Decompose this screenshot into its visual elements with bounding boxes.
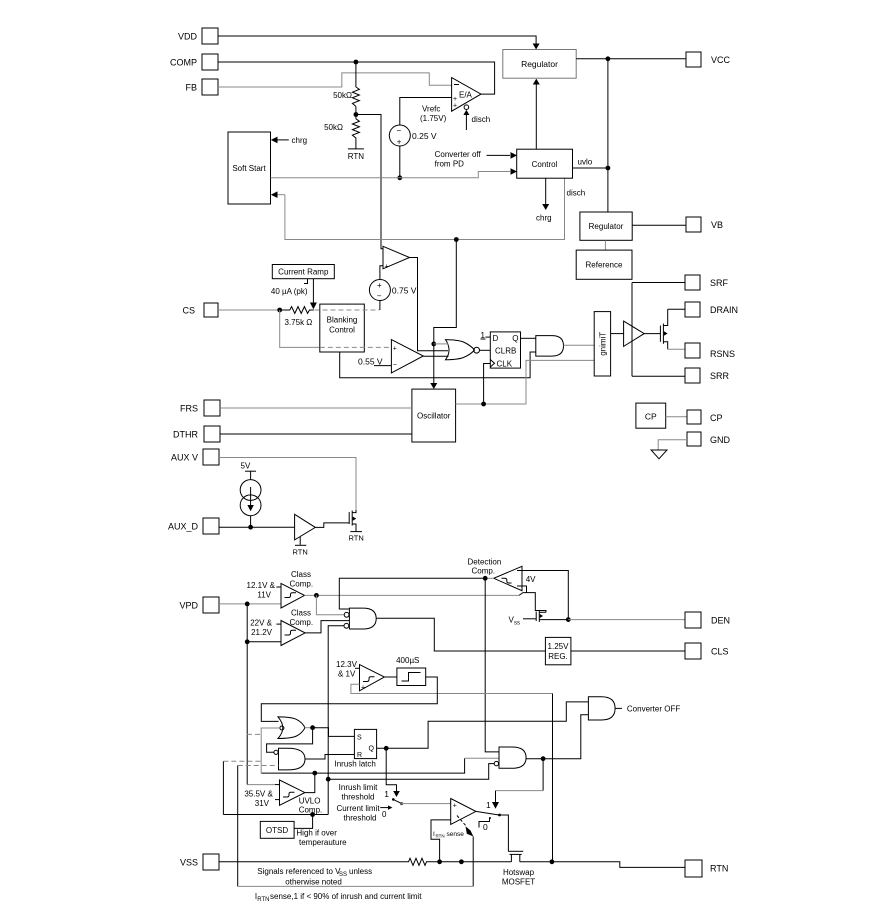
transistor SR MOSFET — [644, 309, 668, 349]
wire RSNS — [668, 348, 685, 350]
transistor Hotswap MOSFET — [502, 851, 535, 886]
wire 0.25V to E/A + input — [400, 98, 452, 126]
resistor RTN sense — [407, 858, 440, 865]
pin AUX_D — [168, 518, 219, 534]
wire AUX_D — [219, 526, 295, 528]
svg-text:D: D — [493, 334, 499, 343]
wire Regulator to VB — [632, 224, 686, 226]
svg-text:RTN: RTN — [349, 534, 364, 543]
wire oscillator to CLK — [484, 364, 491, 405]
wire DTHR — [220, 433, 412, 435]
svg-text:1: 1 — [486, 800, 491, 810]
wire AUX V — [219, 458, 356, 511]
wire NOR output to CLRB — [480, 349, 491, 351]
pin FB — [185, 79, 218, 95]
comparator IRTN sense — [451, 799, 476, 825]
wire mark comp to class gate — [328, 626, 344, 815]
wire detection down to inrush gate — [485, 578, 499, 752]
svg-text:unless: unless — [349, 867, 372, 876]
wire class1 output — [305, 593, 520, 598]
wire dashed stub near OR gate — [247, 733, 262, 735]
supply 5V — [241, 462, 257, 480]
wire mark comp to one-shot — [384, 676, 397, 678]
svg-text:+: + — [453, 803, 457, 810]
svg-text:FB: FB — [185, 83, 197, 93]
svg-text:VB: VB — [711, 220, 723, 230]
gate AND pwm — [536, 336, 564, 357]
svg-text:Current Ramp: Current Ramp — [278, 268, 329, 277]
resistor 50k lower — [324, 119, 359, 149]
dashed control arrow from IRTN comp — [457, 816, 473, 887]
svg-text:Class: Class — [291, 609, 311, 618]
wire buffer to aux fet gate — [315, 523, 349, 528]
source 0.25V — [389, 125, 437, 147]
wire latch Q to converter off gate — [377, 702, 589, 748]
wire DRAIN — [668, 308, 685, 310]
op-amp E/A error amplifier U1 — [452, 78, 481, 112]
wire divider tap to PWM comparator — [356, 115, 383, 249]
wire blanking bottom to AND lower input — [340, 352, 536, 378]
wire VCC rail down — [607, 59, 609, 212]
wire AND2 output to latch R — [305, 755, 354, 760]
pin CP — [687, 410, 723, 424]
wire vss sense vertical — [550, 694, 555, 865]
svg-text:sense,1 if < 90% of inrush and: sense,1 if < 90% of inrush and current l… — [270, 892, 422, 901]
wire line2 OTSD net — [326, 764, 494, 782]
svg-text:AUX V: AUX V — [171, 453, 198, 463]
pin COMP — [170, 54, 218, 70]
svg-text:& 1V: & 1V — [338, 670, 356, 679]
wire UVLO output — [305, 771, 317, 793]
svg-text:0: 0 — [382, 810, 387, 819]
resistor 50k upper — [333, 62, 359, 106]
pin CS — [182, 303, 218, 317]
wire DEN — [568, 619, 685, 621]
wire inhibit line1 — [261, 758, 464, 773]
svg-text:R: R — [357, 752, 362, 759]
wire soft-start output to Control — [271, 168, 518, 178]
svg-text:Detection: Detection — [468, 558, 502, 567]
wire FB to E/A inverting input — [218, 73, 452, 87]
svg-text:GND: GND — [710, 435, 731, 445]
svg-text:50kΩ: 50kΩ — [324, 123, 343, 132]
svg-text:VPD: VPD — [179, 601, 198, 611]
chrg arrow into Soft Start — [271, 136, 307, 145]
wire one-shot output to OR gate — [261, 677, 437, 721]
wire class line to Vss fet — [519, 593, 546, 613]
comparator Class 1 — [247, 570, 314, 608]
svg-text:11V: 11V — [257, 591, 271, 600]
wire CLS — [571, 650, 685, 652]
wire VPD to UVLO — [247, 784, 275, 786]
pin DRAIN — [685, 302, 738, 317]
buffer AUX driver — [295, 514, 316, 540]
svg-text:35.5V &: 35.5V & — [244, 790, 273, 799]
wire rail to RTN pin — [520, 862, 685, 868]
pin FRS — [180, 400, 220, 416]
gate OR inrush set — [278, 717, 305, 739]
block CP charge pump — [636, 403, 666, 428]
wire COMP / E/A output feedback — [218, 60, 495, 95]
wire class gate output to 1.25V REG — [376, 618, 545, 651]
svg-text:uvlo: uvlo — [578, 158, 593, 167]
block Soft Start — [228, 132, 271, 204]
svg-text:Oscillator: Oscillator — [417, 412, 451, 421]
wire SRR — [632, 375, 685, 377]
svg-text:FRS: FRS — [180, 404, 198, 414]
svg-text:temperauture: temperauture — [299, 838, 347, 847]
wire IRTN comp lower input from rail — [431, 820, 451, 864]
svg-text:Converter off: Converter off — [435, 150, 482, 159]
svg-text:4V: 4V — [526, 575, 536, 584]
svg-text:AUX_D: AUX_D — [168, 522, 199, 532]
transistor Vss detection FET — [509, 611, 569, 627]
svg-text:COMP: COMP — [170, 58, 197, 68]
wire line1 to OR bubble input — [261, 728, 280, 773]
svg-text:12.1V &: 12.1V & — [247, 581, 276, 590]
svg-text:Class: Class — [291, 570, 311, 579]
note signals referenced — [257, 867, 372, 887]
svg-text:12.3V: 12.3V — [336, 660, 358, 669]
svg-text:Current limit: Current limit — [336, 804, 380, 813]
contact 0 glyph — [479, 817, 491, 832]
svg-text:CLS: CLS — [711, 647, 729, 657]
svg-text:Vrefc: Vrefc — [422, 105, 440, 114]
svg-text:UVLO: UVLO — [299, 797, 321, 806]
svg-text:RTN: RTN — [257, 897, 269, 903]
wire PWM comparator output — [410, 258, 449, 351]
svg-text:+: + — [361, 685, 365, 692]
pin VDD — [178, 28, 218, 44]
chrg arrow below Control — [536, 178, 552, 222]
pin VB — [686, 217, 723, 232]
comparator mark 12.3V — [336, 660, 384, 692]
block Current Ramp — [271, 265, 334, 297]
svg-text:+: + — [393, 346, 397, 353]
wire OTSD net horizontal — [223, 814, 328, 816]
wire NOR top input — [434, 343, 449, 345]
node divider tap — [354, 106, 359, 118]
svg-text:3.75k Ω: 3.75k Ω — [285, 318, 313, 327]
block 1.25V REG — [545, 637, 571, 664]
wire Regulator to VCC — [576, 56, 686, 61]
svg-text:+: + — [397, 138, 402, 147]
gate driver buffer — [611, 321, 645, 346]
svg-text:+: + — [453, 103, 457, 110]
wire inrush gate out to output switch "1" — [486, 759, 543, 810]
wire class2 output — [305, 621, 349, 633]
block Regulator lower — [580, 212, 632, 240]
wire SRF — [632, 282, 685, 284]
svg-text:VCC: VCC — [711, 55, 731, 65]
block Regulator upper — [503, 50, 576, 79]
svg-text:sense: sense — [447, 831, 465, 838]
wire AND output to Timing — [564, 344, 595, 346]
block Timing — [594, 312, 610, 376]
label Detection Comp — [468, 558, 502, 576]
pin RTN — [685, 860, 728, 877]
svg-text:chrg: chrg — [536, 214, 552, 223]
wire Regulator to Reference — [604, 240, 606, 250]
pin GND — [687, 432, 731, 446]
svg-text:VDD: VDD — [178, 32, 198, 42]
svg-text:disch: disch — [567, 189, 586, 198]
wire uvlo — [573, 158, 611, 171]
svg-text:CLRB: CLRB — [495, 347, 516, 356]
label Vrefc (1.75V) — [420, 105, 447, 124]
wire note loop bottom — [238, 885, 474, 887]
pin DTHR — [173, 426, 220, 442]
wire left boundary vertical — [222, 761, 224, 814]
wire dashed D2 — [223, 760, 261, 762]
svg-text:otherwise noted: otherwise noted — [285, 878, 341, 887]
wire dashed CS to 0.75V node — [315, 309, 380, 311]
pin SRR — [685, 368, 730, 383]
svg-text:DTHR: DTHR — [173, 430, 198, 440]
svg-text:SRF: SRF — [710, 278, 729, 288]
svg-text:0.55 V: 0.55 V — [358, 357, 383, 367]
svg-text:Converter OFF: Converter OFF — [627, 704, 680, 713]
wire CP — [666, 416, 687, 418]
svg-text:Hotswap: Hotswap — [503, 868, 535, 877]
transistor AUX FET — [349, 510, 356, 531]
wire OR to latch S — [313, 728, 355, 737]
svg-text:chrg: chrg — [292, 136, 308, 145]
svg-text:31V: 31V — [255, 799, 270, 808]
block Reference — [576, 250, 632, 279]
svg-text:Inrush limit: Inrush limit — [339, 783, 378, 792]
block Control — [517, 149, 573, 178]
svg-text:0: 0 — [483, 822, 488, 832]
svg-text:VSS: VSS — [180, 858, 198, 868]
svg-text:400µS: 400µS — [396, 656, 419, 665]
svg-text:OTSD: OTSD — [266, 826, 288, 835]
svg-text:RTN: RTN — [436, 833, 445, 838]
wire OTSD output — [294, 812, 315, 828]
svg-text:SRR: SRR — [710, 371, 730, 381]
wire note loop vertical — [237, 766, 239, 887]
wire VSS rail — [219, 861, 407, 863]
comparator UVLO — [244, 780, 322, 815]
disch bubble on E/A — [463, 105, 490, 130]
pin VPD — [179, 597, 219, 613]
block OTSD — [260, 821, 347, 847]
svg-text:Reference: Reference — [586, 261, 623, 270]
label inrush limit threshold — [336, 783, 380, 823]
svg-text:DRAIN: DRAIN — [710, 305, 738, 315]
svg-text:S: S — [357, 735, 362, 742]
svg-text:disch: disch — [472, 115, 491, 124]
wire detection lower input tap — [522, 586, 527, 593]
svg-text:Inrush latch: Inrush latch — [335, 760, 376, 769]
svg-text:Regulator: Regulator — [589, 222, 624, 231]
note IRTN sense — [255, 892, 422, 903]
wire 0.25V bottom to soft-start line — [397, 146, 402, 180]
comparator PWM — [383, 246, 410, 270]
ground rail RTN under divider — [348, 149, 365, 161]
gate AND inrush (3-input) — [494, 747, 526, 768]
wire Control to Regulator — [533, 79, 540, 150]
wire inrush gate output to converter off gate — [526, 715, 588, 759]
svg-text:Comp.: Comp. — [472, 567, 496, 576]
svg-text:50kΩ: 50kΩ — [333, 91, 352, 100]
wire line1 to inrush gate mid input — [465, 757, 499, 759]
svg-text:Comp.: Comp. — [290, 618, 314, 627]
wire rail to hotswap — [440, 859, 512, 864]
comparator current limit 0.55V — [358, 340, 423, 373]
svg-text:threshold: threshold — [344, 814, 377, 823]
svg-text:Soft Start: Soft Start — [232, 164, 266, 173]
wire switch to IRTN comparator — [402, 803, 451, 805]
wire CS node to blanking lower input — [280, 310, 320, 347]
svg-text:CLK: CLK — [497, 360, 513, 369]
svg-text:High if over: High if over — [296, 829, 337, 838]
svg-text:+: + — [377, 281, 382, 290]
svg-text:22V &: 22V & — [250, 619, 272, 628]
svg-text:threshold: threshold — [342, 793, 375, 802]
svg-text:CS: CS — [182, 306, 195, 316]
svg-text:gnimiT: gnimiT — [598, 332, 607, 356]
ground symbol — [651, 450, 667, 459]
svg-text:Q: Q — [512, 334, 518, 343]
wire soft-start ramp to oscillator — [430, 240, 456, 390]
svg-text:Signals referenced to V: Signals referenced to V — [257, 867, 341, 876]
wire detection comp upper input to DEN — [522, 571, 571, 622]
svg-text:40 µA (pk): 40 µA (pk) — [271, 287, 308, 296]
comparator Detection (points left) — [494, 566, 536, 590]
node latch Q — [384, 746, 389, 751]
current source AUX — [240, 480, 261, 516]
block Blanking Control — [320, 304, 365, 352]
svg-text:CP: CP — [645, 412, 657, 422]
wire oscillator output — [456, 360, 595, 406]
svg-text:Regulator: Regulator — [521, 59, 558, 69]
svg-text:RTN: RTN — [293, 548, 308, 557]
svg-text:RTN: RTN — [710, 864, 728, 874]
switch IRTN output — [476, 811, 509, 851]
svg-text:CP: CP — [710, 413, 723, 423]
svg-text:RTN: RTN — [348, 152, 365, 161]
wire current source to AUX_D node — [248, 516, 253, 530]
svg-text:Control: Control — [532, 160, 558, 169]
wire VPD — [219, 602, 281, 785]
gate Converter OFF AND — [588, 697, 680, 720]
svg-text:MOSFET: MOSFET — [502, 878, 535, 887]
wire dashed D1 to AND2 — [238, 765, 279, 767]
svg-text:1: 1 — [384, 789, 389, 799]
node D tied high — [481, 331, 491, 340]
svg-text:0.75 V: 0.75 V — [392, 286, 417, 296]
label IRTN sense — [433, 831, 464, 838]
resistor 3.75k — [280, 307, 314, 327]
svg-text:−: − — [397, 126, 402, 135]
svg-text:DEN: DEN — [711, 616, 730, 626]
source 0.75V — [369, 266, 416, 301]
svg-text:Comp.: Comp. — [290, 580, 314, 589]
gate class AND — [344, 608, 376, 629]
svg-text:REG.: REG. — [548, 652, 568, 661]
ground RTN buffer — [293, 537, 308, 557]
svg-text:Control: Control — [329, 326, 355, 335]
wire dashed blanking to current comparator — [320, 346, 392, 348]
ground RTN aux fet — [349, 532, 364, 543]
gate AND2 inrush reset — [274, 748, 305, 770]
wire detection output — [339, 576, 494, 609]
svg-text:−: − — [393, 362, 397, 369]
wire CS — [218, 308, 282, 313]
latch inrush — [335, 729, 377, 768]
switch threshold select — [380, 798, 403, 819]
svg-text:E/A: E/A — [459, 91, 473, 100]
wire NOR bottom input stub — [423, 355, 448, 357]
svg-text:Blanking: Blanking — [327, 316, 358, 325]
svg-text:ss: ss — [514, 621, 520, 627]
pin VCC — [686, 52, 731, 67]
pin SRF — [685, 275, 729, 290]
wire latch Q to threshold switch — [384, 748, 400, 799]
wire OR output node — [305, 725, 316, 730]
svg-text:0.25 V: 0.25 V — [412, 131, 437, 141]
block Oscillator — [412, 389, 456, 442]
svg-text:RSNS: RSNS — [710, 349, 735, 359]
block one-shot 400us — [396, 656, 426, 686]
svg-text:Comp.: Comp. — [299, 806, 323, 815]
wire GND to ground — [658, 440, 687, 450]
arrow into Soft Start lower right — [271, 191, 285, 198]
pin CLS — [685, 643, 729, 659]
svg-text:from PD: from PD — [435, 160, 465, 169]
wire mark comp + input from rail — [351, 684, 553, 693]
wire OR feedback to AND2 — [267, 728, 313, 753]
comparator Class 2 — [247, 609, 313, 646]
svg-text:21.2V: 21.2V — [251, 628, 273, 637]
wire FRS — [220, 407, 412, 409]
gate NOR (PWM latch clear) — [446, 340, 480, 360]
svg-text:(1.75V): (1.75V) — [420, 114, 447, 123]
flip-flop D — [490, 332, 520, 369]
pin AUX V — [171, 449, 219, 465]
svg-text:5V: 5V — [241, 462, 251, 471]
pin VSS — [180, 854, 219, 870]
svg-text:Q: Q — [369, 746, 375, 753]
wire class1 to class gate — [316, 595, 343, 614]
label Converter off from PD — [435, 150, 517, 169]
pin DEN — [685, 612, 730, 628]
pin RSNS — [685, 343, 735, 359]
wire VDD to Regulator — [218, 36, 540, 50]
wire disch line from Control bottom — [285, 178, 585, 242]
wire Q to AND — [521, 337, 536, 339]
svg-text:1.25V: 1.25V — [548, 642, 570, 651]
arrow Current Ramp into CS node — [310, 279, 317, 310]
wire gate rail vertical — [631, 283, 633, 377]
svg-text:+: + — [385, 264, 389, 271]
svg-text:−: − — [377, 292, 382, 301]
